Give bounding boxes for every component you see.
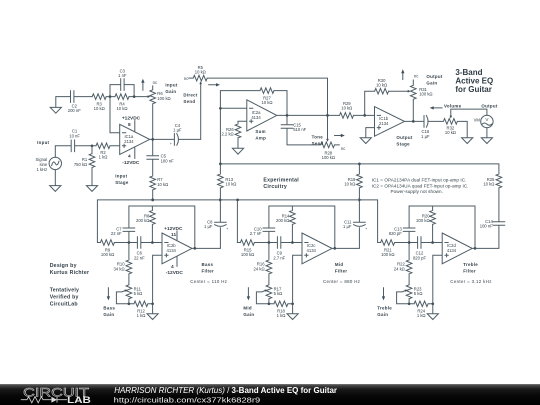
svg-text:Design by: Design by [50,263,77,269]
svg-text:VM: VM [474,117,481,122]
svg-text:3-Band: 3-Band [455,68,482,77]
svg-text:nc: nc [153,80,157,85]
svg-text:4134: 4134 [167,248,177,253]
svg-text:100 kΩ: 100 kΩ [241,252,254,257]
svg-text:24 kΩ: 24 kΩ [394,266,405,271]
svg-text:Stage: Stage [396,142,410,147]
svg-text:4134: 4134 [447,248,457,253]
svg-text:nc: nc [184,76,188,81]
svg-text:10 kΩ: 10 kΩ [341,106,352,111]
svg-text:1 µF: 1 µF [204,224,213,229]
svg-text:10 kΩ: 10 kΩ [225,182,236,187]
svg-text:10 kΩ: 10 kΩ [94,106,105,111]
svg-text:200 nF: 200 nF [68,108,81,113]
svg-text:8: 8 [128,122,131,128]
svg-text:Gain: Gain [243,312,254,317]
svg-text:+12VDC: +12VDC [122,115,141,121]
svg-text:10 nF: 10 nF [69,133,80,138]
svg-text:Tentatively: Tentatively [50,287,79,293]
svg-text:Treble: Treble [463,262,478,267]
svg-text:10 kΩ: 10 kΩ [116,106,127,111]
svg-text:2134: 2134 [379,121,389,126]
svg-text:Bass: Bass [202,262,214,267]
svg-text:11: 11 [171,232,176,238]
svg-text:Verified by: Verified by [50,294,79,300]
svg-text:4134: 4134 [251,115,261,120]
svg-text:Volume: Volume [444,104,462,109]
svg-text:2.7 nF: 2.7 nF [250,231,262,236]
svg-text:1 µF: 1 µF [421,134,430,139]
svg-text:1 nF: 1 nF [118,73,127,78]
svg-text:10 kΩ: 10 kΩ [445,130,456,135]
svg-text:Mid: Mid [335,262,343,267]
svg-text:5 kΩ: 5 kΩ [274,291,283,296]
svg-text:Send: Send [183,99,195,104]
svg-text:Center = 3.12 kHz: Center = 3.12 kHz [450,279,491,284]
svg-text:CircuitLab: CircuitLab [50,301,78,307]
svg-text:IC2 = OPA4134UA quad FET-input: IC2 = OPA4134UA quad FET-input op-amp IC… [372,183,469,188]
svg-text:http://circuitlab.com/cx377kk6: http://circuitlab.com/cx377kk6828r9 [114,395,261,404]
svg-text:10 kΩ: 10 kΩ [483,182,494,187]
svg-text:5 kΩ: 5 kΩ [414,291,423,296]
svg-text:Input: Input [37,140,49,145]
svg-text:1 µF: 1 µF [173,128,182,133]
svg-text:nc: nc [341,146,345,151]
svg-text:10 kΩ: 10 kΩ [376,83,387,88]
svg-text:Input: Input [165,82,177,87]
svg-text:Kurtus Richter: Kurtus Richter [50,270,90,276]
svg-text:100 nF: 100 nF [161,158,174,163]
svg-text:1 kΩ: 1 kΩ [417,313,426,318]
svg-text:Output: Output [426,74,442,79]
svg-text:LAB: LAB [67,395,91,405]
svg-text:100 nF: 100 nF [480,223,493,228]
svg-text:Bass: Bass [103,305,115,310]
svg-text:Filter: Filter [202,269,215,274]
svg-text:Active EQ: Active EQ [455,77,493,86]
svg-text:4: 4 [171,264,174,270]
svg-text:+12VDC: +12VDC [164,226,183,232]
svg-text:1 kΩ: 1 kΩ [99,154,108,159]
svg-text:750 kΩ: 750 kΩ [74,162,87,167]
svg-text:-12VDC: -12VDC [166,270,184,276]
svg-text:10 kΩ: 10 kΩ [157,182,168,187]
svg-text:Gain: Gain [377,312,388,317]
svg-text:for Guitar: for Guitar [455,85,491,94]
svg-text:2.2 kΩ: 2.2 kΩ [221,132,233,137]
svg-text:820 pF: 820 pF [413,255,426,260]
svg-text:Tone: Tone [312,135,324,140]
svg-text:5 kΩ: 5 kΩ [134,291,143,296]
svg-text:Input: Input [115,173,127,178]
svg-text:200 kΩ: 200 kΩ [276,218,289,223]
svg-text:nc: nc [414,74,418,79]
svg-text:1 µF: 1 µF [343,224,352,229]
svg-text:4: 4 [128,153,131,159]
svg-text:HARRISON RICHTER (Kurtus) / 3-: HARRISON RICHTER (Kurtus) / 3-Band Activ… [114,386,337,395]
svg-text:Direct: Direct [183,92,197,97]
svg-text:Stage: Stage [115,180,129,185]
svg-text:Gain: Gain [426,81,437,86]
svg-text:10 kΩ: 10 kΩ [261,100,272,105]
svg-text:100 kΩ: 100 kΩ [419,91,432,96]
svg-text:1 kΩ: 1 kΩ [137,313,146,318]
svg-text:Gain: Gain [165,89,176,94]
svg-text:22 nF: 22 nF [134,255,145,260]
svg-text:Center = 880 Hz: Center = 880 Hz [323,279,360,284]
svg-text:820 pF: 820 pF [389,231,402,236]
svg-text:Output: Output [481,103,497,108]
svg-text:Filter: Filter [463,269,476,274]
svg-text:1 kHz: 1 kHz [36,167,47,172]
svg-text:100 kΩ: 100 kΩ [381,252,394,257]
svg-text:22 nF: 22 nF [111,231,122,236]
svg-text:1 kΩ: 1 kΩ [277,313,286,318]
svg-text:100 kΩ: 100 kΩ [101,252,114,257]
svg-text:34 kΩ: 34 kΩ [114,266,125,271]
svg-text:Power-supply not shown.: Power-supply not shown. [391,189,443,194]
svg-text:10 kΩ: 10 kΩ [195,70,206,75]
svg-text:Amp: Amp [255,136,266,141]
svg-text:2.7 nF: 2.7 nF [273,255,285,260]
svg-text:24 kΩ: 24 kΩ [254,266,265,271]
svg-text:200 kΩ: 200 kΩ [416,218,429,223]
svg-text:100 kΩ: 100 kΩ [157,96,170,101]
svg-text:Experimental: Experimental [263,178,299,184]
svg-text:Sum: Sum [255,129,265,134]
svg-text:510 nF: 510 nF [293,127,306,132]
svg-text:Treble: Treble [377,305,392,310]
svg-text:Circuitry: Circuitry [263,184,287,190]
svg-text:200 kΩ: 200 kΩ [136,218,149,223]
svg-text:Output: Output [396,135,412,140]
svg-text:Center = 110 Hz: Center = 110 Hz [190,279,227,284]
svg-text:2134: 2134 [124,139,134,144]
svg-text:10 kΩ: 10 kΩ [344,182,355,187]
svg-text:4134: 4134 [307,248,317,253]
svg-text:IC1 = OPA2134PA dual FET-input: IC1 = OPA2134PA dual FET-input op-amp IC… [372,178,467,183]
svg-text:Send: Send [312,141,324,146]
svg-text:Mid: Mid [243,305,251,310]
svg-text:100 kΩ: 100 kΩ [322,155,335,160]
svg-text:-12VDC: -12VDC [122,160,140,166]
svg-text:Gain: Gain [103,312,114,317]
svg-text:Filter: Filter [335,269,348,274]
